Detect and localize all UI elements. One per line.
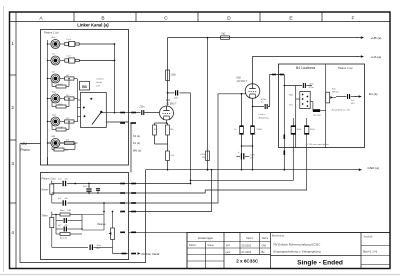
svg-text:RV Einfach Röhrenschaltung 6C3: RV Einfach Röhrenschaltung 6C33C (274, 242, 321, 246)
svg-text:Lautst.-: Lautst.- (259, 113, 267, 116)
svg-text:100k: 100k (171, 74, 177, 77)
svg-text:B4 Loudness: B4 Loudness (296, 66, 316, 70)
svg-text:100n: 100n (309, 83, 315, 85)
svg-text:Blatt-Nr. 3 (4): Blatt-Nr. 3 (4) (363, 250, 377, 253)
svg-text:Bass: Bass (60, 210, 65, 212)
svg-text:C: C (164, 16, 168, 22)
svg-text:gepr.: gepr. (226, 251, 232, 254)
svg-text:8k2: 8k2 (222, 33, 227, 36)
svg-text:Datum: Datum (246, 237, 253, 240)
svg-text:+UB (a): +UB (a) (371, 36, 382, 40)
svg-text:63V: 63V (351, 103, 355, 105)
svg-text:100R: 100R (58, 127, 63, 129)
svg-text:Name: Name (208, 244, 215, 247)
svg-text:Datum: Datum (189, 244, 196, 247)
svg-text:E1 (a): E1 (a) (369, 92, 377, 96)
svg-text:Cinch: Cinch (66, 56, 71, 58)
svg-text:4: 4 (11, 230, 14, 235)
svg-text:1M log: 1M log (332, 92, 339, 94)
svg-text:Eingangsschaltung u. Klangrege: Eingangsschaltung u. Klangregelung (274, 249, 321, 253)
svg-text:Be: Be (262, 250, 266, 254)
svg-text:10M: 10M (67, 210, 71, 212)
svg-text:Einstellung ca. 24 L: Einstellung ca. 24 L (332, 109, 352, 112)
svg-text:1M: 1M (202, 157, 205, 159)
svg-text:+UA (a): +UA (a) (371, 55, 382, 59)
svg-text:100n 1u: 100n 1u (83, 186, 91, 188)
svg-text:1. NF raus umschaltbar: 1. NF raus umschaltbar (307, 143, 329, 146)
svg-text:220n: 220n (140, 107, 146, 109)
svg-text:MM (a): MM (a) (133, 149, 141, 153)
svg-text:Platine 1 (a): Platine 1 (a) (44, 30, 59, 34)
svg-text:Platine 3 (a): Platine 3 (a) (338, 66, 353, 70)
svg-text:Tape: Tape (52, 92, 58, 94)
svg-text:1: 1 (11, 41, 14, 46)
svg-text:1/2 6N1-T: 1/2 6N1-T (237, 80, 248, 83)
svg-text:Bass lin: Bass lin (60, 238, 67, 240)
svg-text:Anschrift: Anschrift (364, 236, 373, 239)
svg-text:1k5 1k8: 1k5 1k8 (313, 115, 321, 117)
svg-text:Single - Ended: Single - Ended (297, 260, 343, 267)
svg-text:D: D (227, 16, 231, 22)
svg-text:B3: B3 (82, 85, 87, 89)
svg-text:B: B (101, 16, 104, 22)
svg-text:Tiefen: Tiefen (42, 215, 49, 217)
svg-text:MM: MM (52, 136, 56, 138)
svg-text:Tape: Tape (52, 115, 58, 117)
svg-text:K2 (a): K2 (a) (133, 134, 140, 138)
svg-text:2: 2 (11, 105, 14, 110)
svg-text:Platine 2 (a): Platine 2 (a) (42, 177, 56, 181)
svg-text:Benennung:: Benennung: (272, 236, 285, 238)
svg-text:Rechter Kanal: Rechter Kanal (142, 252, 160, 256)
svg-text:100n: 100n (174, 98, 180, 100)
svg-text:220R: 220R (257, 129, 263, 131)
svg-text:03-2002: 03-2002 (242, 243, 252, 247)
svg-text:GND (a): GND (a) (368, 166, 380, 170)
svg-text:35V: 35V (250, 158, 254, 160)
svg-text:2 x 6C33C: 2 x 6C33C (236, 259, 259, 264)
svg-text:F: F (352, 16, 355, 22)
svg-text:Poti: Poti (332, 87, 336, 90)
svg-text:E: E (289, 16, 292, 22)
svg-text:Linker Kanal (a): Linker Kanal (a) (77, 23, 109, 28)
svg-text:100u: 100u (250, 154, 256, 156)
svg-text:Balance: Balance (98, 224, 107, 226)
svg-text:470n: 470n (309, 87, 315, 89)
svg-text:Höhen: Höhen (42, 190, 49, 192)
svg-text:wahlsch.: wahlsch. (96, 78, 105, 80)
svg-text:CD: CD (52, 72, 56, 74)
svg-text:MM: MM (22, 142, 28, 146)
svg-text:gez.: gez. (226, 244, 231, 247)
svg-text:Anhebung: Anhebung (259, 117, 270, 120)
svg-text:Name: Name (262, 237, 269, 240)
svg-text:K1 (a): K1 (a) (133, 141, 140, 145)
svg-text:1/2 6N1-T: 1/2 6N1-T (166, 103, 177, 106)
svg-text:470n: 470n (261, 99, 267, 101)
svg-text:Binder: Binder (96, 81, 102, 84)
svg-text:Änderungen: Änderungen (198, 236, 214, 240)
svg-text:Cinch: Cinch (66, 39, 71, 41)
svg-text:Phono: Phono (21, 148, 30, 152)
svg-text:07-2002: 07-2002 (242, 250, 252, 254)
svg-text:3: 3 (11, 161, 14, 166)
svg-text:GW: GW (262, 243, 267, 247)
